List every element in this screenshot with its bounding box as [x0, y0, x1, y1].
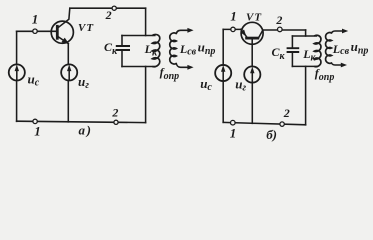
node 2 terminal (b, top) [278, 27, 283, 32]
capacitor Ck (b) plates [287, 48, 300, 52]
svg-text:VT: VT [246, 12, 262, 24]
transistor VT (b) emitter arrow [241, 30, 246, 36]
wire tank feed top (a) [145, 8, 147, 35]
source uc (b) body [215, 65, 231, 81]
transistor VT (a) base bar [56, 25, 59, 40]
transistor VT (a) collector [57, 8, 70, 28]
wire top rail (a) [70, 7, 146, 9]
capacitor Ck (a) plates [116, 46, 130, 50]
node 1 terminal (b, bottom) [231, 120, 236, 125]
svg-text:2: 2 [105, 8, 112, 22]
source ug (b) arrow [251, 73, 253, 81]
coupling lead bottom with arrow (a) [176, 64, 189, 68]
source ug (a) body [61, 64, 77, 80]
wire tank feed bottom (b) [305, 66, 307, 124]
transistor VT (a) emitter arrow [62, 38, 69, 44]
source uc (b) arrow [222, 71, 224, 79]
svg-text:2: 2 [111, 105, 118, 119]
svg-text:2: 2 [275, 13, 282, 27]
svg-text:1: 1 [34, 123, 41, 138]
inductor Lsv (b) [326, 33, 332, 64]
node 2 terminal (a, top) [112, 6, 116, 10]
wire left rail (a) [16, 31, 18, 121]
svg-text:б): б) [266, 127, 277, 142]
node 1 terminal (a, bottom) [33, 119, 37, 123]
svg-text:1: 1 [230, 9, 237, 24]
capacitor Ck (b) top lead [291, 36, 293, 48]
svg-text:Lсв: Lсв [332, 42, 350, 57]
source uc (a) arrow [16, 71, 18, 79]
wire emitter lead (b) [223, 28, 242, 30]
wire bottom rail (a) [17, 121, 146, 122]
svg-text:Lк: Lк [144, 42, 158, 59]
wire tank top bar (b) [292, 35, 316, 37]
svg-text:fопр: fопр [160, 65, 180, 82]
wire base lead (a) [17, 30, 57, 32]
wire left rail (b) [222, 29, 224, 122]
node 2 terminal (a, bottom) [114, 120, 118, 124]
transistor VT (b) collector [258, 30, 262, 38]
svg-text:uc: uc [200, 76, 212, 93]
inductor Lk (b) [314, 35, 321, 66]
svg-text:а): а) [79, 122, 91, 137]
svg-text:Cк: Cк [272, 45, 286, 62]
svg-text:VT: VT [78, 22, 94, 34]
wire tank bottom bar (b) [292, 65, 316, 67]
wire tank feed bottom (a) [145, 67, 147, 123]
wire tank bottom bar (a) [122, 66, 155, 68]
coupling lead top with arrow (b) [332, 31, 344, 33]
svg-text:2: 2 [283, 106, 290, 120]
coupling lead bottom with arrow (b) [332, 63, 343, 65]
coupling lead top with arrow (a) [176, 30, 189, 33]
node 2 terminal (b, bottom) [280, 122, 284, 126]
svg-text:uпр: uпр [351, 39, 369, 57]
svg-text:uпр: uпр [198, 40, 216, 58]
svg-text:Lсв: Lсв [179, 42, 197, 58]
wire tank top bar (a) [122, 35, 155, 37]
transistor VT (b) body [241, 22, 263, 44]
svg-text:fопр: fопр [315, 66, 335, 83]
source ug (a) arrow [68, 71, 70, 79]
source ug (b) body [244, 66, 260, 82]
wire emitter branch (a) [67, 44, 69, 122]
svg-text:1: 1 [230, 125, 237, 140]
svg-text:Cк: Cк [104, 40, 118, 57]
wire base branch (b) [251, 38, 253, 123]
node 1 terminal (b, top) [231, 27, 235, 31]
capacitor Ck (b) bottom lead [291, 52, 293, 66]
transistor VT (b) emitter [241, 29, 248, 38]
svg-text:Lк: Lк [302, 47, 316, 64]
transistor VT (a) emitter [57, 36, 68, 43]
wire tank feed top (b) [305, 30, 307, 36]
svg-text:uc: uc [28, 72, 40, 89]
svg-text:1: 1 [32, 11, 39, 26]
inductor Lk (a) [152, 34, 159, 66]
transistor VT (a) body [51, 21, 73, 43]
capacitor Ck (a) top lead [121, 36, 123, 47]
capacitor Ck (a) bottom lead [121, 50, 123, 67]
inductor Lsv (a) [170, 33, 177, 64]
node 1 terminal (a, top) [33, 29, 37, 33]
source uc (a) body [9, 64, 25, 80]
transistor VT (b) base bar [245, 37, 259, 40]
wire bottom rail (b) [223, 122, 305, 124]
svg-text:uг: uг [78, 74, 89, 91]
wire collector to tank (b) [263, 29, 306, 31]
